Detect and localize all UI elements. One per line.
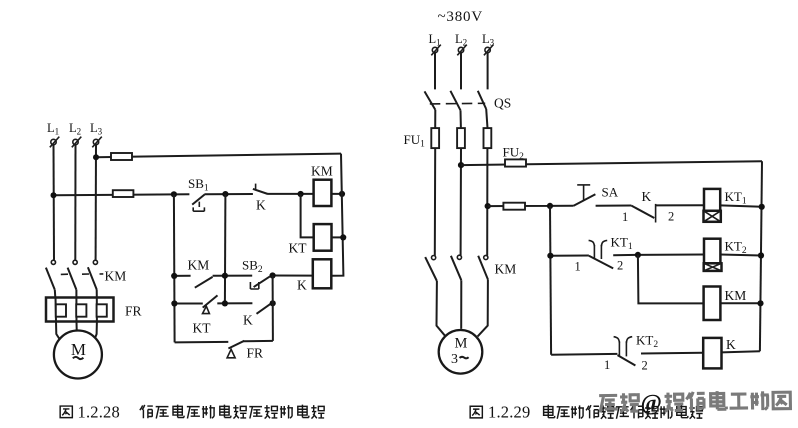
svg-text:SB2: SB2 — [242, 258, 263, 276]
svg-text:L3: L3 — [482, 32, 495, 48]
svg-text:2: 2 — [617, 258, 623, 272]
contact KT (NC delayed) — [193, 295, 218, 335]
svg-text:L1: L1 — [47, 121, 59, 137]
wire KM contacts to FR box — [55, 290, 97, 298]
wires FR to motor — [56, 322, 97, 339]
coil KM — [311, 164, 333, 207]
wire vertical rail x174 — [173, 194, 176, 342]
svg-text:KT: KT — [289, 241, 308, 256]
wire L1 vertical — [53, 145, 56, 260]
junction rail / line2 — [759, 204, 765, 210]
fuse FU2 lower — [503, 203, 525, 210]
wires terminals to QS — [435, 53, 488, 90]
junction node B x225 — [222, 191, 228, 197]
wires FU1 down to KM contacts — [435, 148, 488, 256]
contact K (NO, line 1) — [253, 184, 268, 213]
motor M (left) — [54, 331, 102, 379]
svg-text:M: M — [455, 336, 468, 352]
watermark 头条@技成电工课堂 — [599, 388, 790, 417]
junction left rail top — [547, 203, 553, 209]
coil KT2 (time relay, delay element) — [704, 238, 747, 271]
wire control line 3 (KT / K contacts) — [174, 302, 272, 304]
wire KT branch from node C — [301, 194, 314, 237]
wire KM branch — [638, 255, 761, 304]
wire right rail (left circuit) — [331, 154, 343, 276]
coil KT1 (time relay, delay element) — [704, 189, 747, 222]
pushbutton SB2 (NO) — [242, 258, 270, 290]
junction node C x300 — [298, 191, 304, 197]
wire control line 2 (KM aux / SB2 / K coil) — [174, 275, 313, 277]
svg-text:KT2: KT2 — [636, 333, 658, 351]
node L1 terminal (right) — [429, 32, 441, 55]
wires QS to FU1 — [435, 109, 487, 128]
junction rail / KM line — [757, 300, 763, 306]
svg-text:KT1: KT1 — [611, 234, 633, 252]
svg-text:@: @ — [640, 390, 662, 416]
svg-text:KM: KM — [311, 164, 333, 179]
junction line3 x272 — [270, 300, 276, 306]
junction line2 x225 — [222, 273, 228, 279]
junction node A x174 — [171, 191, 177, 197]
coil K — [297, 259, 331, 292]
junction node line3 x638 — [635, 252, 641, 258]
svg-text:SB1: SB1 — [188, 176, 209, 194]
junction KM coil / right rail — [339, 191, 345, 197]
node L1 terminal — [47, 121, 59, 147]
fuse FU2 — [503, 145, 527, 167]
svg-text:L2: L2 — [455, 32, 467, 48]
svg-text:1: 1 — [575, 260, 581, 274]
motor M 3~ (right) — [439, 330, 483, 374]
fuse FU top — [111, 153, 132, 160]
svg-text:1: 1 — [604, 358, 610, 372]
svg-text:K: K — [243, 313, 253, 328]
wire top feeder from L3 to right rail — [96, 154, 341, 158]
pushbutton SB1 (NC) — [188, 176, 209, 211]
contact FR (NC thermal) — [227, 341, 263, 361]
svg-text:L2: L2 — [69, 121, 81, 137]
junction KT coil / right rail — [340, 234, 346, 240]
switch QS knife blades — [425, 91, 512, 111]
thermal relay FR heaters box — [46, 298, 142, 322]
junction line2 x174 — [171, 273, 177, 279]
svg-text:KM: KM — [105, 269, 127, 284]
wire L3 vertical — [95, 145, 97, 260]
junction rail / line3 — [758, 252, 764, 258]
contact K (NO, line 3) — [243, 303, 271, 327]
svg-text:3: 3 — [451, 352, 458, 367]
junction L1/control line — [51, 192, 57, 198]
svg-text:K: K — [642, 189, 652, 204]
svg-text:FU1: FU1 — [404, 132, 426, 150]
junction L3 / control feeder — [485, 203, 491, 209]
fuse FU1 (three) — [404, 128, 492, 149]
contactor KM main contacts (right) — [425, 255, 516, 281]
caption figure 1.2.29 — [470, 403, 702, 422]
junction line3 x225 — [222, 300, 228, 306]
wire bottom line with FR gap — [175, 341, 273, 343]
wire vertical rail x225 — [224, 194, 227, 303]
svg-text:1.2.29: 1.2.29 — [488, 403, 530, 422]
wire KT coil to rail — [332, 236, 344, 238]
svg-text:M: M — [71, 340, 86, 359]
svg-text:KM: KM — [495, 262, 517, 277]
svg-text:FR: FR — [247, 346, 264, 361]
svg-text:SA: SA — [602, 185, 619, 200]
svg-text:~380V: ~380V — [438, 9, 483, 25]
caption figure 1.2.28 — [60, 403, 324, 422]
wire line4 KT2 contact to K coil — [551, 351, 760, 355]
svg-text:KM: KM — [725, 288, 747, 303]
svg-text:FU2: FU2 — [503, 145, 525, 163]
wire left rail (right circuit) — [550, 206, 551, 355]
svg-text:KT2: KT2 — [725, 238, 747, 256]
junction line2 x272 — [270, 272, 276, 278]
fuse FU control — [113, 190, 134, 197]
wire control line SA-K-KT1 — [488, 205, 762, 207]
svg-text:KT1: KT1 — [725, 189, 747, 207]
wire right rail (right circuit) — [760, 161, 762, 351]
svg-text:K: K — [256, 198, 266, 213]
contact K (1-2) — [622, 189, 674, 224]
contact KT2 (NO delayed closing) — [604, 333, 658, 373]
svg-text:1.2.28: 1.2.28 — [78, 403, 120, 422]
svg-text:KM: KM — [188, 258, 210, 273]
junction L3/top feeder — [93, 154, 99, 160]
wire FU2 feeder to right rail — [461, 161, 762, 165]
wire vertical rail x272 — [272, 276, 274, 341]
svg-text:2: 2 — [642, 358, 648, 372]
coil KT — [289, 224, 332, 255]
wire L2 vertical — [74, 145, 76, 260]
switch SA — [574, 185, 619, 206]
junction line3 x174 — [171, 300, 177, 306]
node L3 terminal — [90, 121, 103, 147]
wire line3 KT1 contact to KT2 coil — [550, 255, 761, 256]
coil K (right) — [703, 337, 736, 368]
contactor KM main contacts — [46, 260, 126, 290]
svg-text:1: 1 — [622, 210, 628, 224]
node L3 terminal (right) — [482, 32, 495, 55]
junction L2 / FU2 feeder — [458, 162, 464, 168]
svg-text:FR: FR — [125, 304, 142, 319]
wires KM contacts to motor — [437, 279, 488, 336]
contact KM auxiliary (NO) — [188, 258, 213, 288]
svg-text:L3: L3 — [90, 121, 103, 137]
junction left rail / line3 — [547, 253, 553, 259]
svg-text:2: 2 — [668, 210, 674, 224]
svg-text:K: K — [297, 278, 307, 293]
wire control line 1 (L1 to KM coil) — [54, 194, 342, 195]
svg-text:QS: QS — [494, 96, 511, 111]
svg-text:K: K — [726, 337, 736, 352]
node L2 terminal — [69, 121, 81, 147]
contact KT1 (NO delayed closing) — [575, 234, 633, 273]
svg-text:L1: L1 — [429, 32, 441, 48]
svg-text:KT: KT — [193, 321, 212, 336]
node L2 terminal (right) — [455, 32, 467, 55]
coil KM (right) — [704, 287, 747, 321]
